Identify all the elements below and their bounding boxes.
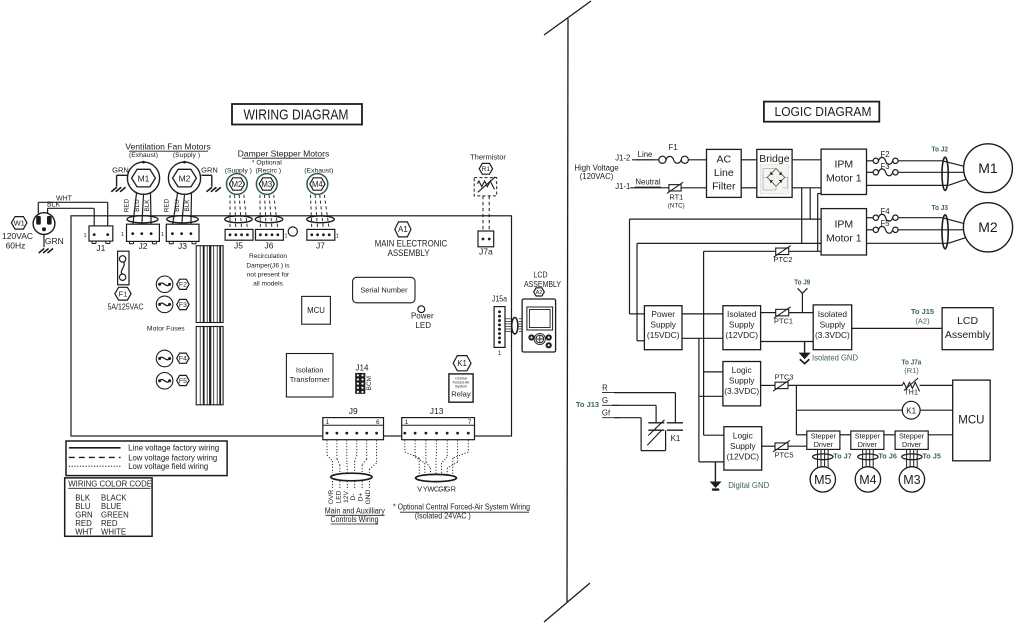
J9 dotted fan-out wires xyxy=(326,440,328,455)
logic supply 3.3VDC xyxy=(723,362,761,406)
hatch wires J15a to LCD xyxy=(505,318,511,320)
IPM2 output wires with fuses F4 F5 xyxy=(867,217,874,219)
AC line filter xyxy=(707,149,742,197)
title: WIRING DIAGRAM xyxy=(232,104,362,125)
svg-text:Ventilation Fan Motors: Ventilation Fan Motors xyxy=(125,142,211,152)
svg-text:M1: M1 xyxy=(978,160,998,176)
svg-text:IPM: IPM xyxy=(834,219,853,231)
svg-text:Power: Power xyxy=(651,309,675,319)
legend: low voltage factory wiring xyxy=(69,456,121,458)
isolated supply 3.3VDC xyxy=(813,305,852,350)
motor M1 (logic) xyxy=(964,144,1013,193)
ribbon cable (upper) xyxy=(196,246,223,323)
svg-text:J9: J9 xyxy=(349,406,358,416)
svg-text:Damper(J6 ) is: Damper(J6 ) is xyxy=(246,262,290,269)
cable ellipse J6 xyxy=(255,216,283,223)
damper stepper motor M2 xyxy=(227,174,248,195)
damper stepper motor M4 xyxy=(307,174,328,195)
svg-text:(NTC): (NTC) xyxy=(668,203,685,210)
connector J9 xyxy=(323,418,384,440)
PTC1 xyxy=(776,309,789,316)
cable ellipse J9 xyxy=(331,473,372,481)
svg-text:MCU: MCU xyxy=(958,415,984,427)
svg-text:K1: K1 xyxy=(671,434,681,443)
motor M4 xyxy=(855,467,880,492)
svg-text:LED: LED xyxy=(415,321,431,330)
svg-text:M5: M5 xyxy=(814,473,831,487)
svg-text:LCD: LCD xyxy=(534,271,548,280)
motor M3 xyxy=(899,467,924,492)
svg-text:F2: F2 xyxy=(881,150,890,159)
svg-text:Isolated: Isolated xyxy=(818,309,848,319)
svg-text:1: 1 xyxy=(405,419,409,426)
isolated supply 12VDC xyxy=(723,306,761,350)
cable ellipse LCD xyxy=(512,318,518,334)
svg-text:WIRING COLOR CODE: WIRING COLOR CODE xyxy=(68,480,152,489)
svg-text:G: G xyxy=(602,396,608,405)
svg-text:Damper Stepper Motors: Damper Stepper Motors xyxy=(238,149,330,159)
thermistor TH1 xyxy=(902,382,919,391)
MCU (board) xyxy=(302,296,331,324)
cable to M4 xyxy=(862,449,864,467)
svg-text:Driver: Driver xyxy=(902,440,922,449)
legend box xyxy=(66,441,227,476)
svg-text:Supply: Supply xyxy=(729,320,755,330)
svg-text:(R1): (R1) xyxy=(904,366,919,375)
mounting hole xyxy=(288,227,297,236)
svg-text:(Supply ): (Supply ) xyxy=(173,152,200,159)
wire RT1 to filter xyxy=(681,187,706,189)
wire to PTC1 xyxy=(761,312,776,314)
motor M5 xyxy=(810,467,835,492)
svg-text:Neutral: Neutral xyxy=(635,178,660,187)
motor M2 (logic) xyxy=(963,203,1012,252)
wires M1 to J2 (RED BLU BLK) xyxy=(133,193,137,226)
svg-text:WIRING DIAGRAM: WIRING DIAGRAM xyxy=(244,108,349,124)
wires bridge to IPM motor 1 xyxy=(792,159,821,161)
svg-text:D+: D+ xyxy=(358,493,365,502)
svg-text:RED: RED xyxy=(124,198,131,212)
svg-text:F1: F1 xyxy=(119,289,128,298)
IPM motor 1 (lower) U-IPM2 xyxy=(821,209,866,255)
left bus verticals to power supply xyxy=(629,219,631,314)
svg-text:OVR: OVR xyxy=(328,490,335,505)
svg-text:F4: F4 xyxy=(179,356,187,363)
svg-text:Controls Wiring: Controls Wiring xyxy=(331,515,379,524)
wire WHT xyxy=(38,201,107,203)
svg-text:F3: F3 xyxy=(881,162,890,171)
fuse F1 xyxy=(118,251,129,285)
svg-text:IPM: IPM xyxy=(834,159,853,171)
stepper driver for M3 xyxy=(895,431,928,449)
logic supply 12VDC xyxy=(724,427,762,470)
svg-text:J1-1: J1-1 xyxy=(615,182,630,191)
MCU box (logic) xyxy=(953,380,991,461)
cable ellipse M1 xyxy=(942,157,948,190)
connector J13 xyxy=(402,418,475,440)
junction vertical to bridge wire xyxy=(809,188,811,219)
wire iso12 bottom to iso3.3 bottom xyxy=(761,341,814,343)
svg-text:Supply: Supply xyxy=(729,376,755,386)
svg-text:Low voltage factory wiring: Low voltage factory wiring xyxy=(128,453,217,462)
svg-text:Logic: Logic xyxy=(733,430,753,440)
svg-text:Driver: Driver xyxy=(858,440,878,449)
svg-text:W1: W1 xyxy=(14,218,25,227)
fuse F1 (logic) xyxy=(659,156,666,163)
svg-text:Motor Fuses: Motor Fuses xyxy=(147,326,185,333)
motor fuse F5 xyxy=(156,373,173,390)
wires M2 to J3 (RED BLU BLK) xyxy=(172,193,177,226)
svg-text:PTC5: PTC5 xyxy=(775,450,794,459)
ribbon cable (lower) xyxy=(196,327,223,405)
svg-text:F5: F5 xyxy=(881,219,891,228)
relay K1 (board) xyxy=(453,356,471,371)
svg-text:Transformer: Transformer xyxy=(290,375,331,384)
svg-text:BLU: BLU xyxy=(174,199,181,212)
svg-text:A1: A1 xyxy=(398,225,408,234)
wires PS to isolated supply xyxy=(682,313,723,315)
svg-text:Recirculation: Recirculation xyxy=(249,253,287,260)
svg-text:Thermistor: Thermistor xyxy=(470,153,506,162)
wire neutral to RT1 xyxy=(630,187,669,189)
svg-text:BCM: BCM xyxy=(366,376,373,390)
wire BLK xyxy=(48,207,95,209)
svg-text:BLK: BLK xyxy=(144,199,151,212)
svg-text:1: 1 xyxy=(284,233,287,239)
vertical from PS bottom wire to logic supplies xyxy=(698,338,700,462)
svg-text:M3: M3 xyxy=(261,180,272,189)
digital GND drop xyxy=(714,462,716,482)
relay K1 (logic) xyxy=(902,401,920,419)
svg-text:Power: Power xyxy=(411,312,434,321)
cable ellipse J3 xyxy=(167,216,199,223)
legend: line voltage factory wiring xyxy=(69,447,121,449)
svg-text:(120VAC): (120VAC) xyxy=(580,172,614,181)
svg-text:1: 1 xyxy=(121,232,124,238)
svg-text:M4: M4 xyxy=(859,473,876,487)
damper stepper motor M3 xyxy=(256,174,277,195)
stepper driver for M5 xyxy=(807,431,840,449)
connector J5 xyxy=(225,229,253,240)
svg-text:(3.3VDC): (3.3VDC) xyxy=(724,386,759,396)
cable ellipse J13 xyxy=(416,474,457,481)
svg-text:A2: A2 xyxy=(536,290,543,296)
power supply box xyxy=(644,306,682,350)
svg-text:V: V xyxy=(417,485,422,494)
connector J3 xyxy=(166,224,199,241)
svg-text:5A/125VAC: 5A/125VAC xyxy=(108,302,144,311)
wire to PTC5 xyxy=(762,445,776,447)
converging wires into M1 xyxy=(942,161,966,167)
svg-text:Driver: Driver xyxy=(814,440,834,449)
svg-text:To J2: To J2 xyxy=(932,144,949,153)
plug W1 xyxy=(33,213,55,235)
svg-text:System: System xyxy=(455,385,467,389)
converging wires into M2 xyxy=(942,218,966,225)
wire iso3.3 to LCD xyxy=(852,327,942,329)
svg-text:J5: J5 xyxy=(234,241,243,251)
connector J1 xyxy=(89,226,113,241)
isolation transformer xyxy=(286,354,333,398)
svg-text:Assembly: Assembly xyxy=(945,329,991,341)
svg-text:Line: Line xyxy=(638,150,653,159)
motor fuse F4 xyxy=(156,350,173,367)
svg-text:1: 1 xyxy=(336,233,339,239)
svg-text:Isolation: Isolation xyxy=(296,366,324,375)
svg-text:M3: M3 xyxy=(903,473,920,487)
motor fuse F2 xyxy=(156,276,173,293)
ground (plug) xyxy=(48,249,54,254)
svg-text:* Optional Central Forced-Air: * Optional Central Forced-Air System Wir… xyxy=(393,502,530,511)
svg-text:M2: M2 xyxy=(978,219,998,235)
motor M1 xyxy=(127,162,159,194)
svg-text:Main and Auxilliary: Main and Auxilliary xyxy=(325,507,385,516)
svg-text:Line voltage factory wiring: Line voltage factory wiring xyxy=(128,444,219,453)
digital GND symbol xyxy=(710,482,722,489)
svg-text:Filter: Filter xyxy=(712,181,736,193)
svg-text:F1: F1 xyxy=(668,143,677,152)
svg-text:PTC3: PTC3 xyxy=(775,373,794,382)
svg-text:GND: GND xyxy=(365,489,372,504)
serial number box xyxy=(353,277,415,303)
svg-text:ASSEMBLY: ASSEMBLY xyxy=(388,248,430,259)
wire K1 to MCU xyxy=(796,409,902,411)
svg-text:RED: RED xyxy=(163,198,170,212)
legend: low voltage field wiring xyxy=(69,465,121,467)
svg-text:(Exhaust): (Exhaust) xyxy=(129,152,158,159)
wiring color code box xyxy=(65,478,152,536)
svg-text:M4: M4 xyxy=(312,180,323,189)
svg-text:TH1: TH1 xyxy=(904,388,918,397)
bridge rectifier xyxy=(757,149,792,197)
motor M2 (supply fan) xyxy=(168,162,200,194)
cable to M5 xyxy=(817,449,819,467)
wire to PTC3 xyxy=(761,384,776,386)
svg-text:Motor 1: Motor 1 xyxy=(826,233,862,245)
PTC2 xyxy=(776,248,789,255)
svg-text:(15VDC): (15VDC) xyxy=(647,330,680,340)
svg-text:12V: 12V xyxy=(343,491,350,503)
cable ellipse M2 xyxy=(942,215,948,249)
svg-text:To J13: To J13 xyxy=(576,400,599,409)
svg-text:Supply: Supply xyxy=(820,319,846,329)
assembly label A1 xyxy=(395,222,411,237)
svg-text:F4: F4 xyxy=(881,207,891,216)
svg-text:GRN: GRN xyxy=(45,236,64,246)
motor fuse F3 xyxy=(156,296,173,313)
svg-text:K1: K1 xyxy=(457,359,467,368)
svg-text:6: 6 xyxy=(376,419,380,426)
connector J7 xyxy=(307,229,335,240)
svg-text:Logic: Logic xyxy=(732,365,752,375)
svg-text:J6: J6 xyxy=(265,241,274,251)
svg-text:Bridge: Bridge xyxy=(759,153,790,165)
IPM1 output wires with fuses F2 F3 xyxy=(867,160,874,162)
stepper wire bus xyxy=(796,434,806,436)
svg-text:BLU: BLU xyxy=(134,199,141,212)
stepper driver for M4 xyxy=(851,431,884,449)
svg-text:1: 1 xyxy=(161,232,164,238)
cable to M3 xyxy=(906,449,908,467)
svg-text:To J15: To J15 xyxy=(911,307,934,316)
power LED xyxy=(418,306,425,313)
svg-text:1: 1 xyxy=(325,419,329,426)
junction vertical (HVDC) xyxy=(801,188,803,244)
svg-text:PTC2: PTC2 xyxy=(774,255,793,264)
cable ellipse J2 xyxy=(127,216,158,223)
vertical bus PTC3-K1-stepper xyxy=(795,385,797,434)
svg-text:To J6: To J6 xyxy=(878,451,897,460)
svg-text:1: 1 xyxy=(83,233,86,239)
svg-text:Isolated: Isolated xyxy=(727,309,757,319)
LCD remote device xyxy=(522,299,556,352)
svg-text:LED: LED xyxy=(335,490,342,503)
svg-text:M2: M2 xyxy=(231,180,242,189)
svg-text:Serial Number: Serial Number xyxy=(360,286,408,295)
svg-text:RT1: RT1 xyxy=(669,192,683,201)
title: LOGIC DIAGRAM xyxy=(764,102,879,122)
vertical from IPM1 bottom stub xyxy=(818,193,821,195)
stub to logic supply 3.3 top xyxy=(704,371,723,373)
svg-text:LCD: LCD xyxy=(957,315,978,327)
svg-text:AC: AC xyxy=(717,153,732,165)
svg-text:To J9: To J9 xyxy=(794,277,810,286)
svg-text:not present for: not present for xyxy=(247,272,290,279)
wire PTC3 to MCU with TH1 xyxy=(788,384,903,386)
svg-text:D-: D- xyxy=(350,494,357,501)
svg-text:F3: F3 xyxy=(179,302,187,309)
svg-text:R: R xyxy=(602,383,608,392)
svg-text:all models: all models xyxy=(253,281,283,288)
svg-text:WHITE: WHITE xyxy=(101,528,126,537)
svg-text:Relay: Relay xyxy=(451,390,471,399)
cable ellipse J7 xyxy=(307,216,335,223)
wires filter to bridge xyxy=(741,159,757,161)
svg-text:ASSEMBLY: ASSEMBLY xyxy=(524,280,561,289)
PTC5 xyxy=(775,443,788,450)
svg-text:To J7: To J7 xyxy=(833,451,852,460)
svg-text:M1: M1 xyxy=(138,173,150,183)
svg-text:J14: J14 xyxy=(356,362,369,372)
svg-text:* Optional: * Optional xyxy=(252,160,282,167)
svg-text:Low voltage field wiring: Low voltage field wiring xyxy=(128,462,208,471)
svg-text:Digital GND: Digital GND xyxy=(728,480,769,490)
isolated GND drop xyxy=(804,342,806,355)
svg-text:To J3: To J3 xyxy=(932,203,949,212)
svg-text:J13: J13 xyxy=(430,406,444,416)
J13 dotted fan-out wires xyxy=(404,440,406,452)
page divider line xyxy=(544,1,591,35)
svg-text:(3.3VDC): (3.3VDC) xyxy=(815,330,850,340)
LCD assembly box (logic) xyxy=(942,308,993,350)
svg-text:WHT: WHT xyxy=(75,528,93,537)
svg-text:(12VDC): (12VDC) xyxy=(727,451,760,461)
svg-text:J7a: J7a xyxy=(479,246,493,256)
svg-text:Supply: Supply xyxy=(730,441,756,451)
connector J6 xyxy=(256,229,284,240)
svg-text:J1-2: J1-2 xyxy=(615,154,630,163)
IPM motor 1 (upper) U-IPM1 xyxy=(821,149,866,194)
svg-text:J2: J2 xyxy=(139,241,148,251)
svg-text:(A2): (A2) xyxy=(915,316,930,325)
svg-text:(12VDC): (12VDC) xyxy=(725,330,758,340)
svg-text:J7: J7 xyxy=(316,241,325,251)
svg-text:K1: K1 xyxy=(906,407,916,416)
svg-text:60Hz: 60Hz xyxy=(6,240,26,250)
svg-text:J1: J1 xyxy=(96,243,105,253)
svg-text:R: R xyxy=(451,485,456,494)
mid bus vertical (to logic supplies) xyxy=(703,251,705,435)
connector J2 xyxy=(127,224,160,241)
svg-text:J3: J3 xyxy=(178,241,187,251)
svg-text:R1: R1 xyxy=(482,166,491,173)
svg-text:F2: F2 xyxy=(179,282,187,289)
svg-text:GRN: GRN xyxy=(112,165,129,174)
svg-text:PTC1: PTC1 xyxy=(774,316,793,325)
svg-text:Isolated GND: Isolated GND xyxy=(812,353,858,363)
svg-text:Supply: Supply xyxy=(650,320,676,330)
svg-text:7: 7 xyxy=(468,419,472,426)
svg-text:J15a: J15a xyxy=(492,293,507,303)
svg-text:Gf: Gf xyxy=(602,409,611,418)
bus wire with PTC2 (IPM2 input 3) xyxy=(704,250,776,252)
relay contact K1 xyxy=(648,422,664,424)
main electronic assembly board outline xyxy=(71,216,512,436)
svg-text:Line: Line xyxy=(714,167,734,179)
connector J7a xyxy=(478,231,494,247)
thermistor RT1 xyxy=(669,185,681,191)
svg-text:BLK: BLK xyxy=(47,202,61,209)
svg-text:To J7a: To J7a xyxy=(902,357,922,366)
svg-text:LOGIC DIAGRAM: LOGIC DIAGRAM xyxy=(775,105,872,119)
bus wire (IPM2 input 1) xyxy=(630,218,822,220)
svg-text:GRN: GRN xyxy=(201,165,218,174)
wire F1 to filter xyxy=(688,159,706,161)
svg-text:MCU: MCU xyxy=(307,306,325,315)
svg-text:(Isolated 24VAC ): (Isolated 24VAC ) xyxy=(415,511,471,520)
svg-text:F5: F5 xyxy=(179,378,187,385)
wire GRN plug to ground xyxy=(43,235,45,248)
isolated GND symbol xyxy=(799,353,811,360)
wires R1 to J7a (dashed) xyxy=(482,196,484,231)
wire line to F1 xyxy=(632,159,659,161)
svg-text:Motor 1: Motor 1 xyxy=(826,173,862,185)
cable ellipse J5 xyxy=(225,216,253,223)
bus wire (IPM2 input 2) xyxy=(637,242,821,244)
svg-text:To J5: To J5 xyxy=(922,451,941,460)
svg-text:M2: M2 xyxy=(179,173,191,183)
svg-text:BLK: BLK xyxy=(184,199,191,212)
